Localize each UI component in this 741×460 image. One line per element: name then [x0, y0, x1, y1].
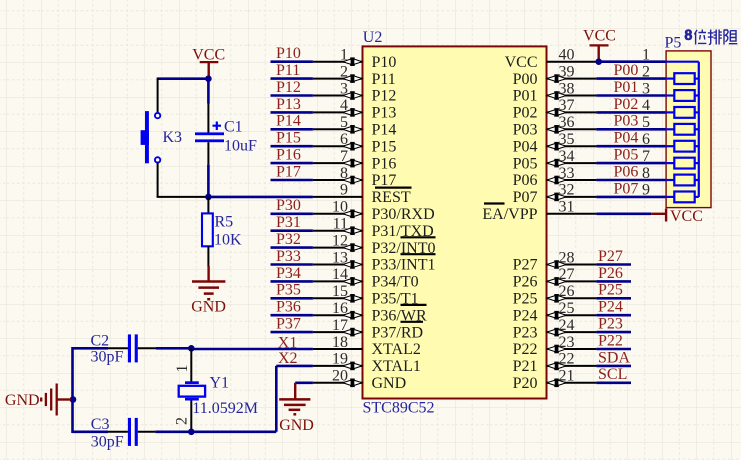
svg-text:P20: P20	[513, 375, 538, 392]
node P26	[598, 265, 623, 282]
pin 28 io marker	[547, 260, 566, 269]
overline INT1	[401, 253, 436, 255]
pin 32 P07	[513, 182, 597, 206]
wire net P27	[596, 263, 631, 266]
wire X2 riser	[275, 366, 278, 432]
pin 35 io marker	[547, 142, 566, 151]
wire pin 14 lead	[313, 280, 363, 282]
svg-text:P16: P16	[372, 155, 397, 172]
svg-text:K3: K3	[163, 129, 183, 146]
wire pin 16 lead	[313, 314, 363, 316]
node P23	[598, 316, 623, 333]
svg-text:3: 3	[642, 80, 650, 97]
pin 23 io marker	[547, 345, 566, 354]
junction xtal top	[188, 345, 195, 352]
svg-text:P03: P03	[513, 122, 538, 139]
node P05	[614, 147, 639, 164]
button K3	[141, 111, 161, 163]
pin 33 io marker	[547, 176, 566, 185]
node P32	[276, 231, 301, 248]
wire net P14	[271, 128, 313, 131]
svg-text:14: 14	[332, 266, 348, 283]
wire net P32	[271, 246, 313, 249]
pin 5 P14	[313, 114, 397, 138]
svg-text:P07: P07	[513, 189, 538, 206]
node P27	[598, 248, 623, 265]
svg-text:Y1: Y1	[210, 375, 230, 392]
wire pin 19 lead	[313, 365, 363, 367]
overline REST	[375, 187, 412, 189]
svg-text:P24: P24	[598, 299, 623, 316]
svg-text:STC89C52: STC89C52	[363, 400, 435, 417]
svg-text:P13: P13	[372, 105, 397, 122]
svg-text:X1: X1	[278, 335, 298, 352]
svg-text:P06: P06	[513, 172, 538, 189]
resistor element 2 (P5)	[666, 90, 699, 101]
node X1	[278, 335, 298, 352]
wire net P13	[271, 111, 313, 114]
pin 15 io marker	[343, 294, 362, 303]
svg-text:36: 36	[559, 114, 575, 131]
wire pin 33 lead	[547, 179, 597, 181]
svg-text:P00: P00	[513, 71, 538, 88]
svg-text:P27: P27	[513, 257, 538, 274]
svg-text:30pF: 30pF	[91, 349, 124, 366]
node P02	[614, 96, 639, 113]
pin 21 P20	[513, 368, 597, 392]
wire pin 23 lead	[547, 348, 597, 350]
svg-text:21: 21	[559, 368, 575, 385]
pin 20 io marker	[343, 379, 362, 388]
label C1	[224, 119, 243, 136]
pin 8 io marker	[343, 176, 362, 185]
svg-text:P05: P05	[614, 147, 639, 164]
pin 7 io marker	[343, 159, 362, 168]
wire net P01	[596, 94, 666, 97]
wire pin 25 lead	[547, 314, 597, 316]
node P07	[614, 180, 639, 197]
node P33	[276, 248, 301, 265]
wire net P06	[596, 179, 666, 182]
pin 27 io marker	[547, 277, 566, 286]
wire pin 39 lead	[547, 78, 597, 80]
svg-text:P26: P26	[598, 265, 623, 282]
designator P5	[665, 35, 682, 52]
pin number 1 (P5)	[642, 47, 650, 64]
pin 7 P16	[313, 148, 397, 172]
pin 22 P21	[513, 351, 597, 375]
pin 16 io marker	[343, 311, 362, 320]
wire pin 5 lead	[313, 128, 363, 130]
wire left vertical rail	[71, 347, 74, 433]
node P00	[614, 62, 639, 79]
svg-text:8: 8	[340, 165, 348, 182]
pin 3 io marker	[343, 91, 362, 100]
wire pin 24 lead	[547, 331, 597, 333]
pin 25 P24	[513, 300, 597, 324]
pin 37 io marker	[547, 108, 566, 117]
wire C3 to xtal bottom node	[155, 430, 191, 433]
svg-text:2: 2	[174, 417, 191, 425]
pin 36 io marker	[547, 125, 566, 134]
resistor element 6 (P5)	[666, 158, 699, 169]
pin number 2 (P5)	[642, 63, 650, 80]
svg-text:U2: U2	[363, 29, 383, 46]
pin 2 io marker	[343, 74, 362, 83]
pin 21 io marker	[547, 379, 566, 388]
svg-text:P27: P27	[598, 248, 623, 265]
node P31	[276, 214, 301, 231]
svg-text:22: 22	[559, 351, 575, 368]
node P11	[276, 62, 300, 79]
svg-text:13: 13	[332, 249, 348, 266]
svg-text:37: 37	[559, 97, 575, 114]
wire pin 20 lead	[313, 382, 363, 384]
pin 10 io marker	[343, 210, 362, 219]
pin 1 io marker	[343, 57, 362, 66]
svg-text:16: 16	[332, 300, 348, 317]
power VCC (reset)	[192, 46, 225, 78]
pin 12 io marker	[343, 243, 362, 252]
resistor element 7 (P5)	[666, 175, 699, 186]
overline WR	[401, 304, 427, 306]
resistor R5	[202, 213, 213, 246]
svg-text:28: 28	[559, 249, 575, 266]
capacitor C1	[195, 122, 224, 143]
svg-text:P11: P11	[372, 71, 396, 88]
pin 17 P37/RD	[313, 317, 423, 341]
pin 34 P05	[513, 148, 597, 172]
svg-text:GND: GND	[5, 392, 40, 409]
wire R5 top lead	[207, 197, 209, 214]
capacitor C2	[128, 334, 138, 362]
wire R5 bottom lead	[207, 246, 209, 266]
node X2	[278, 350, 298, 367]
wire net P24	[596, 314, 631, 317]
wire pin 1 lead	[313, 61, 363, 63]
pin 33 P06	[513, 165, 597, 189]
label Y1	[210, 375, 230, 392]
wire Y1 top lead	[190, 348, 192, 381]
svg-text:P03: P03	[614, 113, 639, 130]
svg-text:P35: P35	[276, 282, 301, 299]
svg-text:15: 15	[332, 283, 348, 300]
pin 24 io marker	[547, 328, 566, 337]
pin 9 REST	[313, 182, 411, 206]
node P16	[276, 147, 301, 164]
svg-text:P21: P21	[513, 358, 538, 375]
pin 39 io marker	[547, 74, 566, 83]
resistor network P5 body	[666, 51, 711, 208]
pin 14 P34/T0	[313, 266, 419, 290]
svg-text:SDA: SDA	[598, 349, 630, 366]
pin 23 P22	[513, 334, 597, 358]
svg-text:24: 24	[559, 317, 575, 334]
pin 15 P35/T1	[313, 283, 419, 307]
pin 3 P12	[313, 80, 397, 104]
svg-text:P01: P01	[614, 79, 639, 96]
wire net P25	[596, 297, 631, 300]
svg-text:P25: P25	[598, 282, 623, 299]
svg-text:P32: P32	[276, 231, 301, 248]
svg-text:34: 34	[559, 148, 575, 165]
pin 24 P23	[513, 317, 597, 341]
wire K3 bottom lead	[157, 163, 159, 197]
wire C1 top lead	[207, 104, 209, 133]
node P10	[276, 45, 301, 62]
wire K3 to junction	[157, 196, 209, 198]
svg-text:P22: P22	[598, 332, 623, 349]
wire net P07	[596, 196, 666, 199]
wire C2 left lead	[108, 347, 128, 349]
svg-text:P26: P26	[513, 274, 538, 291]
wire net P35	[271, 297, 313, 300]
svg-text:P33: P33	[276, 248, 301, 265]
wire X2 net to pin XTAL1	[276, 365, 313, 368]
label C2	[91, 333, 110, 350]
wire pin 31 lead	[547, 213, 597, 215]
junction VCC pin40	[595, 58, 602, 65]
wire pin 32 lead	[547, 196, 597, 198]
pin 25 io marker	[547, 311, 566, 320]
wire pin 35 lead	[547, 145, 597, 147]
pin number 9 (P5)	[642, 182, 650, 199]
svg-text:SCL: SCL	[598, 366, 627, 383]
node P15	[276, 130, 301, 147]
overline EA	[484, 202, 505, 204]
wire VCC node down to C1	[207, 79, 210, 104]
svg-text:3: 3	[340, 80, 348, 97]
designator U2	[363, 29, 383, 46]
pin number 8 (P5)	[642, 165, 650, 182]
svg-text:P10: P10	[372, 54, 397, 71]
node P13	[276, 96, 301, 113]
pin 11 P31/TXD	[313, 216, 434, 240]
wire net P30	[271, 213, 313, 216]
svg-text:GND: GND	[372, 375, 407, 392]
pin 40 VCC	[505, 47, 597, 71]
junction left gnd	[70, 396, 77, 403]
caption 8位排阻	[685, 28, 738, 45]
wire pin 17 lead	[313, 331, 363, 333]
svg-text:P12: P12	[372, 88, 397, 105]
wire pin 10 lead	[313, 213, 363, 215]
svg-text:P02: P02	[513, 105, 538, 122]
wire GND net to pin 20	[295, 381, 313, 384]
svg-text:8: 8	[642, 165, 650, 182]
wire resnet common bus	[666, 62, 699, 197]
wire net P22	[596, 348, 631, 351]
resistor element 3 (P5)	[666, 107, 699, 118]
power VCC (EA/VPP)	[651, 208, 703, 225]
svg-text:VCC: VCC	[583, 28, 616, 45]
pin number 2 (Y1)	[174, 417, 191, 425]
svg-text:P11: P11	[276, 62, 300, 79]
svg-text:VCC: VCC	[192, 46, 225, 63]
svg-text:P15: P15	[276, 130, 301, 147]
pin 34 io marker	[547, 159, 566, 168]
svg-text:P33/INT1: P33/INT1	[372, 257, 436, 274]
wire net P36	[271, 314, 313, 317]
wire net P03	[596, 128, 666, 131]
svg-text:P01: P01	[513, 88, 538, 105]
wire pin 7 lead	[313, 162, 363, 164]
wire net P12	[271, 94, 313, 97]
svg-text:REST: REST	[372, 189, 411, 206]
pin 1 P10	[313, 47, 397, 71]
part name STC89C52	[363, 400, 435, 417]
wire xtal bottom rail left	[73, 430, 109, 433]
pin 20 GND	[313, 368, 406, 392]
resistor element 1 (P5)	[666, 73, 699, 84]
wire Y1 bottom lead	[190, 401, 192, 432]
capacitor C3	[128, 418, 138, 446]
wire C3 right lead	[138, 431, 156, 433]
value 10K	[214, 232, 242, 249]
value 30pF (C2)	[91, 349, 124, 366]
wire pin 3 lead	[313, 95, 363, 97]
pin 6 io marker	[343, 142, 362, 151]
wire net P15	[271, 145, 313, 148]
svg-text:C2: C2	[91, 333, 110, 350]
svg-text:32: 32	[559, 182, 575, 199]
node P34	[276, 265, 301, 282]
junction xtal bottom	[188, 429, 195, 436]
wire reset net to pin REST	[208, 196, 313, 199]
svg-text:P34/T0: P34/T0	[372, 274, 419, 291]
svg-text:17: 17	[332, 317, 348, 334]
pin 13 P33/INT1	[313, 249, 436, 273]
label R5	[215, 214, 234, 231]
svg-text:P30/RXD: P30/RXD	[372, 206, 435, 223]
svg-text:C3: C3	[91, 416, 110, 433]
pin 16 P36/WR	[313, 300, 427, 324]
pin 17 io marker	[343, 328, 362, 337]
svg-text:P23: P23	[598, 316, 623, 333]
ground GND (pin 20)	[279, 383, 314, 434]
ic U2 body	[363, 46, 547, 398]
wire pin 40 lead	[547, 61, 597, 63]
node P30	[276, 197, 301, 214]
value 11.0592M	[192, 400, 258, 417]
svg-text:P07: P07	[614, 180, 639, 197]
pin 39 P00	[513, 63, 597, 87]
pin number 7 (P5)	[642, 148, 650, 165]
svg-text:40: 40	[559, 47, 575, 64]
wire pin 28 lead	[547, 264, 597, 266]
svg-text:1: 1	[642, 47, 650, 64]
svg-text:P36: P36	[276, 299, 301, 316]
pin 22 io marker	[547, 362, 566, 371]
svg-text:27: 27	[559, 266, 575, 283]
pin 35 P04	[513, 131, 597, 155]
svg-text:P31: P31	[276, 214, 301, 231]
node P03	[614, 113, 639, 130]
svg-text:VCC: VCC	[505, 54, 538, 71]
svg-text:P14: P14	[372, 122, 397, 139]
svg-text:26: 26	[559, 283, 575, 300]
svg-text:P23: P23	[513, 324, 538, 341]
pin 2 P11	[313, 63, 396, 87]
pin 13 io marker	[343, 260, 362, 269]
wire pin 9 lead	[313, 196, 363, 198]
svg-text:GND: GND	[191, 299, 226, 316]
svg-text:2: 2	[340, 63, 348, 80]
svg-text:4: 4	[340, 97, 348, 114]
svg-text:EA/VPP: EA/VPP	[482, 206, 537, 223]
svg-text:10K: 10K	[214, 232, 242, 249]
power VCC (top right)	[583, 28, 616, 62]
wire pin 13 lead	[313, 264, 363, 266]
svg-text:P02: P02	[614, 96, 639, 113]
svg-text:C1: C1	[224, 119, 243, 136]
wire net P04	[596, 145, 666, 148]
svg-text:2: 2	[642, 63, 650, 80]
wire pin 22 lead	[547, 365, 597, 367]
pin 8 P17	[313, 165, 397, 189]
wire net P23	[596, 331, 631, 334]
svg-text:6: 6	[340, 131, 348, 148]
wire pin 36 lead	[547, 128, 597, 130]
wire X1 net to pin XTAL2	[191, 348, 313, 351]
svg-text:10: 10	[332, 199, 348, 216]
wire pin 38 lead	[547, 95, 597, 97]
wire pin 4 lead	[313, 111, 363, 113]
svg-text:12: 12	[332, 232, 348, 249]
svg-text:5: 5	[642, 114, 650, 131]
svg-text:P17: P17	[276, 163, 301, 180]
wire pin 6 lead	[313, 145, 363, 147]
wire pin 8 lead	[313, 179, 363, 181]
svg-text:P04: P04	[614, 130, 639, 147]
node P22	[598, 332, 623, 349]
pin number 4 (P5)	[642, 97, 650, 114]
svg-text:P05: P05	[513, 155, 538, 172]
wire net P00	[596, 77, 666, 80]
junction VCC node	[205, 75, 212, 82]
svg-text:P00: P00	[614, 62, 639, 79]
svg-text:1: 1	[340, 47, 348, 64]
wire C2 right lead	[138, 347, 156, 349]
wire pin 18 lead	[313, 348, 363, 350]
svg-text:1: 1	[174, 365, 191, 373]
node P14	[276, 113, 301, 130]
wire C1 bottom lead	[207, 142, 209, 164]
wire pin 2 lead	[313, 78, 363, 80]
wire pin40 to resnet pin1	[596, 60, 666, 63]
junction reset node	[205, 194, 212, 201]
svg-text:P37: P37	[276, 316, 301, 333]
wire pin 26 lead	[547, 297, 597, 299]
wire pin 34 lead	[547, 162, 597, 164]
svg-text:35: 35	[559, 131, 575, 148]
svg-text:4: 4	[642, 97, 650, 114]
svg-text:GND: GND	[279, 417, 314, 434]
crystal Y1	[179, 381, 205, 400]
svg-text:P06: P06	[614, 163, 639, 180]
node P35	[276, 282, 301, 299]
wire K3 top lead	[157, 78, 159, 114]
node P12	[276, 79, 301, 96]
pin number 5 (P5)	[642, 114, 650, 131]
pin 10 P30/RXD	[313, 199, 435, 223]
svg-text:P25: P25	[513, 291, 538, 308]
pin number 1 (Y1)	[174, 365, 191, 373]
svg-text:5: 5	[340, 114, 348, 131]
value 10uF	[224, 138, 257, 155]
svg-text:P04: P04	[513, 138, 538, 155]
svg-text:30pF: 30pF	[91, 434, 124, 451]
